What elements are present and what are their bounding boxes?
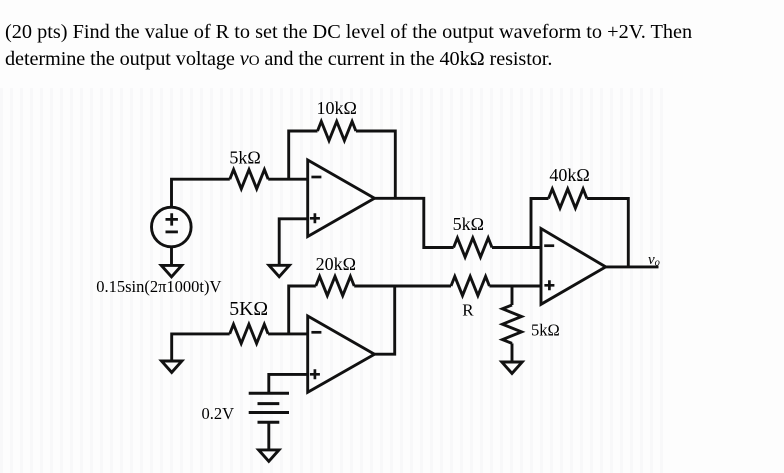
svg-text:R: R [462,301,474,320]
svg-text:10kΩ: 10kΩ [317,98,357,118]
svg-text:vo: vo [648,252,660,269]
svg-text:5KΩ: 5KΩ [229,298,268,320]
svg-text:40kΩ: 40kΩ [549,165,589,185]
svg-text:5kΩ: 5kΩ [453,214,484,234]
svg-text:5kΩ: 5kΩ [229,148,260,168]
svg-text:0.15sin(2π1000t)V: 0.15sin(2π1000t)V [96,277,221,296]
svg-text:20kΩ: 20kΩ [316,254,356,274]
svg-text:5kΩ: 5kΩ [531,321,560,340]
svg-text:0.2V: 0.2V [202,404,235,423]
